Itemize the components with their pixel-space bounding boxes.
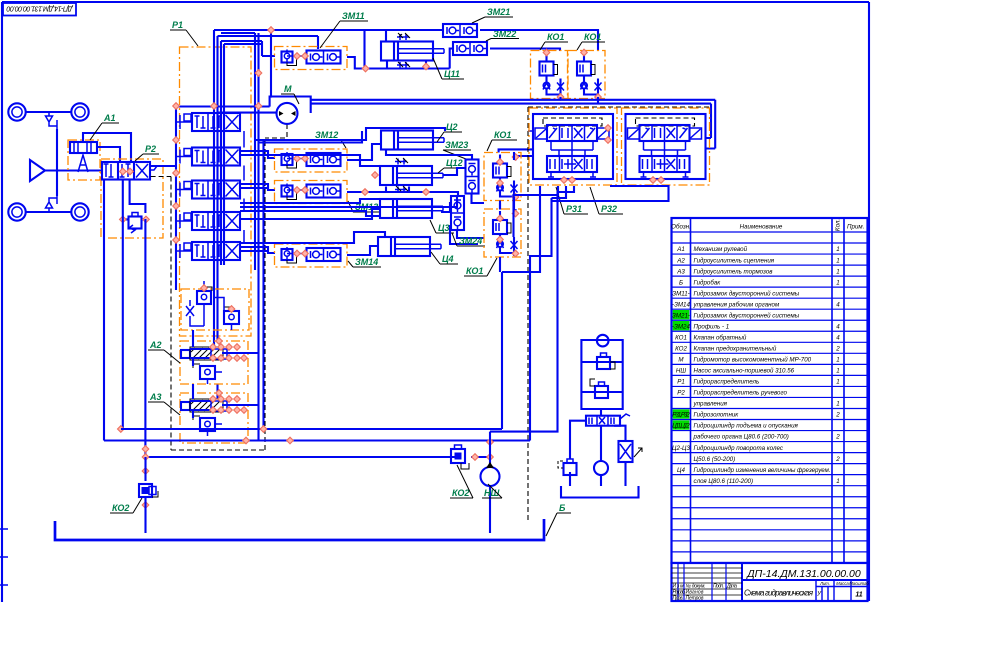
front axle wire bbox=[26, 111, 71, 113]
feed pump circle bbox=[594, 461, 608, 475]
svg-text:Гидроцилиндр поворота колес: Гидроцилиндр поворота колес bbox=[694, 445, 784, 452]
svg-text:2: 2 bbox=[835, 434, 840, 441]
svg-text:А2: А2 bbox=[149, 340, 162, 350]
bottom long wire 1 bbox=[121, 428, 502, 430]
svg-text:А3: А3 bbox=[676, 268, 685, 275]
section interconnect stubs bbox=[243, 131, 245, 242]
svg-text:КО1: КО1 bbox=[494, 130, 511, 140]
sheet frame bbox=[2, 2, 869, 602]
P1 manifold line 3b bbox=[224, 44, 262, 265]
svg-text:Р31,Р32: Р31,Р32 bbox=[672, 412, 690, 419]
svg-text:Ц4: Ц4 bbox=[677, 467, 685, 474]
svg-text:11: 11 bbox=[855, 592, 862, 599]
wire P1 to ZM14 bbox=[240, 247, 275, 253]
svg-text:4: 4 bbox=[836, 323, 840, 330]
hydrolock ZM22 bbox=[453, 42, 487, 55]
check valve KO1 unit 3 bbox=[484, 153, 521, 201]
A3 valve bbox=[200, 418, 215, 431]
svg-text:Клапан предохранительный: Клапан предохранительный bbox=[694, 346, 777, 353]
pump unit directional valve bbox=[586, 416, 620, 426]
title block lit/mass/scale cells bbox=[816, 580, 868, 601]
title block designation cell bbox=[742, 563, 868, 601]
safety valve KO2 left bbox=[139, 484, 158, 497]
drain wire A1 down bbox=[103, 180, 105, 441]
svg-text:Наименование: Наименование bbox=[740, 224, 783, 231]
svg-text:М: М bbox=[284, 84, 292, 94]
svg-text:Ц4: Ц4 bbox=[442, 254, 454, 264]
svg-text:Ц11: Ц11 bbox=[444, 69, 460, 79]
svg-text:А3: А3 bbox=[149, 392, 162, 402]
cylinder C11 bbox=[381, 42, 444, 61]
aux valve branch bbox=[570, 421, 586, 486]
cylinder C4 bbox=[378, 237, 441, 256]
wire P1 to ZM24 bbox=[240, 196, 457, 207]
wire KO1-3 pilots to R31 bbox=[499, 149, 534, 160]
svg-text:М: М bbox=[678, 357, 684, 364]
P1 section 1 bbox=[180, 113, 240, 131]
svg-text:Гидробак: Гидробак bbox=[694, 279, 722, 286]
svg-text:Пров.: Пров. bbox=[673, 596, 684, 602]
svg-text:А2: А2 bbox=[676, 257, 685, 264]
wire KO1-3 to KO1-4 bbox=[500, 152, 514, 210]
C12 fitting bottom bbox=[395, 187, 407, 193]
svg-text:КО2: КО2 bbox=[112, 503, 129, 513]
P1 section 4 bbox=[180, 212, 240, 230]
P1 return manifold bbox=[257, 33, 259, 441]
top bus wire 2 bbox=[218, 33, 319, 49]
R31 staircase wire 1 bbox=[530, 186, 566, 441]
stub to R31 left bbox=[528, 130, 533, 132]
steering wheel symbol bbox=[30, 160, 57, 181]
svg-text:А1: А1 bbox=[676, 246, 685, 253]
wire P2 to P1 supply bbox=[150, 165, 176, 167]
svg-text:Ц12: Ц12 bbox=[446, 158, 463, 168]
wire P1 to C2 top bbox=[255, 128, 445, 143]
wire C2 to ZM23 top bbox=[386, 150, 472, 161]
valve block R32 bbox=[622, 108, 710, 185]
A3 diamonds cluster bbox=[210, 396, 217, 403]
svg-text:Механизм рулевой: Механизм рулевой bbox=[694, 246, 748, 253]
bottom long wire 3 bbox=[146, 456, 491, 458]
pilot reducing valve 2 bbox=[224, 311, 239, 324]
svg-text:Гидроцилиндр изменения величин: Гидроцилиндр изменения величины фрезеруе… bbox=[694, 467, 831, 474]
svg-text:Гидрозолотник: Гидрозолотник bbox=[694, 412, 740, 419]
P1 pilot box bbox=[181, 289, 249, 330]
title block frame bbox=[672, 563, 868, 601]
svg-text:Р2: Р2 bbox=[677, 390, 685, 397]
svg-text:КО2: КО2 bbox=[675, 346, 687, 353]
hydromotor M housing bbox=[270, 97, 311, 114]
svg-text:1: 1 bbox=[836, 379, 839, 386]
wire ZM13 to C12 bbox=[347, 187, 458, 198]
frame tick marks bbox=[0, 529, 8, 585]
svg-text:Кол.: Кол. bbox=[835, 219, 842, 231]
booster A1 lever bbox=[78, 155, 88, 172]
svg-text:-ЗМ14: -ЗМ14 bbox=[672, 301, 690, 308]
pump unit frame bbox=[581, 340, 622, 409]
motor bus wire 1 bbox=[311, 100, 715, 149]
svg-text:Масштаб: Масштаб bbox=[849, 581, 869, 586]
dashed control frame left bbox=[151, 124, 287, 450]
svg-text:Гидрозамок двусторонней систем: Гидрозамок двусторонней системы bbox=[694, 312, 800, 319]
wire ZM22 left bbox=[450, 49, 453, 69]
C11 top port wire bbox=[385, 30, 387, 42]
pump unit gauge circle bbox=[597, 335, 609, 347]
pump unit tank bbox=[561, 486, 639, 498]
wires under KO1 to P3 blocks bbox=[561, 97, 599, 104]
P1 manifold line 3 bbox=[220, 41, 222, 265]
svg-text:ЗМ11-: ЗМ11- bbox=[672, 290, 689, 297]
pilot reducing valve 1 bbox=[197, 291, 211, 304]
pilot wires bbox=[190, 281, 232, 330]
filter symbol bbox=[619, 441, 633, 462]
svg-text:Гидрораспределитель: Гидрораспределитель bbox=[694, 379, 760, 386]
steering column vertical wire bbox=[56, 129, 58, 196]
svg-text:Масса: Масса bbox=[836, 581, 849, 586]
svg-text:Б: Б bbox=[559, 503, 566, 513]
svg-text:ЗМ21: ЗМ21 bbox=[487, 7, 510, 17]
svg-text:КО1: КО1 bbox=[547, 32, 564, 42]
A3 hatched cylinder bbox=[181, 399, 227, 412]
hydrolock ZM24 vertical bbox=[451, 196, 464, 230]
wire ZM23 bottom bbox=[472, 194, 485, 203]
svg-text:1: 1 bbox=[836, 368, 839, 375]
svg-text:Профиль - 1: Профиль - 1 bbox=[694, 323, 730, 330]
hydrolock ZM13 box bbox=[275, 181, 348, 204]
valve block R31 bbox=[529, 108, 617, 185]
A2 diamonds cluster bbox=[210, 344, 217, 351]
P2 directional valve bbox=[102, 162, 150, 180]
svg-text:1: 1 bbox=[836, 268, 839, 275]
C11 fitting top bbox=[397, 34, 409, 40]
svg-text:Обозн.: Обозн. bbox=[671, 224, 691, 231]
check valve KO1 unit 4 bbox=[484, 209, 521, 257]
P1 manifold line 4 bbox=[254, 33, 256, 270]
wire ZM21 to KO1-2 bbox=[480, 30, 598, 51]
svg-text:1: 1 bbox=[836, 279, 839, 286]
pump suction wire bbox=[600, 426, 602, 461]
P1 section 3 bbox=[180, 181, 240, 199]
svg-text:1: 1 bbox=[836, 478, 839, 485]
table grid lines bbox=[672, 232, 868, 563]
svg-text:4: 4 bbox=[836, 301, 840, 308]
drain line right of P1 bbox=[262, 140, 264, 429]
wire C3 rod to ZM24 bbox=[441, 202, 450, 212]
parts list table frame bbox=[672, 218, 868, 563]
rear axle tap valve bbox=[46, 196, 58, 212]
wire P1 to C12 top bbox=[240, 155, 380, 166]
svg-text:2: 2 bbox=[835, 346, 840, 353]
steering supply wire bbox=[57, 169, 102, 171]
aux relief valve bbox=[564, 459, 577, 475]
wire P1 to ZM13 bbox=[240, 184, 275, 190]
motor bus wire 2 bbox=[311, 104, 711, 138]
svg-text:1: 1 bbox=[836, 357, 839, 364]
svg-text:КО1: КО1 bbox=[675, 335, 687, 342]
document stamp box (rotated designation) bbox=[3, 3, 76, 16]
A3 booster box bbox=[180, 393, 248, 443]
svg-text:Ц50.6 (50-200): Ц50.6 (50-200) bbox=[694, 456, 736, 463]
steering valve P2 box bbox=[101, 159, 163, 238]
hydrolock ZM14 box bbox=[275, 244, 348, 267]
svg-text:Петров: Петров bbox=[686, 596, 704, 602]
svg-text:Р1: Р1 bbox=[172, 20, 183, 30]
dashed line right bbox=[528, 107, 710, 520]
svg-text:Гидрораспределитель ручевого: Гидрораспределитель ручевого bbox=[694, 390, 788, 397]
svg-text:ЗМ11: ЗМ11 bbox=[342, 11, 365, 21]
svg-text:Ц2: Ц2 bbox=[446, 122, 458, 132]
A2/A3 connection wires bbox=[193, 330, 259, 418]
svg-text:Гидроцилиндр подъема и опускан: Гидроцилиндр подъема и опускания bbox=[694, 423, 799, 430]
svg-text:Насос аксиально-поршевой 310.5: Насос аксиально-поршевой 310.56 bbox=[694, 368, 795, 375]
check valve KO1 unit 2 bbox=[568, 51, 605, 99]
A1 wires bbox=[83, 133, 131, 162]
hydrolock ZM11 box bbox=[275, 47, 348, 70]
wire ZM14 to C4 bbox=[347, 246, 378, 255]
main pump NSh bbox=[481, 467, 500, 486]
wire P1 to C4 top bbox=[240, 232, 385, 243]
svg-text:управления: управления bbox=[693, 401, 728, 408]
wheel bottom-left bbox=[8, 203, 25, 220]
svg-text:Р31: Р31 bbox=[566, 204, 582, 214]
hydrolock ZM23 vertical bbox=[466, 160, 479, 194]
P1 manifold line 2 bbox=[216, 36, 218, 399]
svg-text:Гидроусилитель тормозов: Гидроусилитель тормозов bbox=[694, 268, 774, 275]
wire C12 rod to ZM23 bbox=[443, 168, 466, 175]
P1 supply line left bbox=[175, 103, 177, 290]
wire ZM12 to cylinder C2 bbox=[347, 144, 381, 160]
section supply stubs bbox=[176, 122, 180, 251]
hydromotor M supply wires bbox=[176, 107, 277, 113]
wire KO1-4 down bbox=[499, 257, 501, 272]
wire ZM24 bottom to KO1-4 bbox=[450, 225, 484, 244]
safety valve KO2 right bbox=[451, 445, 469, 469]
svg-text:Клапан обратный: Клапан обратный bbox=[694, 335, 747, 342]
P1 section 2 bbox=[180, 148, 240, 166]
svg-text:4: 4 bbox=[836, 335, 840, 342]
A2 hatched cylinder bbox=[181, 347, 227, 360]
filter branch wire bbox=[614, 426, 626, 486]
pump unit valve 1 bbox=[597, 353, 610, 369]
svg-text:2: 2 bbox=[835, 412, 840, 419]
svg-text:НШ: НШ bbox=[676, 368, 686, 375]
svg-text:Р32: Р32 bbox=[601, 204, 617, 214]
hydrolock ZM21 bbox=[443, 24, 477, 37]
cylinder C12 bbox=[380, 166, 443, 185]
svg-text:ЗМ21-: ЗМ21- bbox=[672, 312, 690, 319]
pump unit wires bbox=[600, 409, 602, 416]
svg-text:ЗМ23: ЗМ23 bbox=[445, 140, 468, 150]
wheel top-right bbox=[71, 103, 88, 120]
svg-text:ЗМ24: ЗМ24 bbox=[459, 236, 482, 246]
A2 valve bbox=[200, 366, 215, 379]
P2 relief valve bbox=[129, 213, 142, 229]
svg-text:Ц11,Ц12: Ц11,Ц12 bbox=[672, 423, 690, 430]
P1 section 5 bbox=[180, 242, 240, 260]
svg-text:ЗМ14: ЗМ14 bbox=[355, 257, 378, 267]
svg-text:Р2: Р2 bbox=[145, 144, 156, 154]
svg-text:управления рабочим органом: управления рабочим органом bbox=[693, 301, 780, 308]
C12 fitting top bbox=[395, 159, 407, 165]
svg-text:А1: А1 bbox=[103, 113, 116, 123]
svg-text:КО2: КО2 bbox=[452, 488, 469, 498]
svg-text:Дата: Дата bbox=[726, 584, 737, 590]
distributor P1 box bbox=[180, 47, 252, 336]
pilot X symbol bbox=[186, 306, 194, 316]
svg-text:Прим.: Прим. bbox=[847, 224, 864, 231]
svg-text:Гидроусилитель сцепления: Гидроусилитель сцепления bbox=[694, 257, 775, 264]
svg-text:КО1: КО1 bbox=[466, 266, 483, 276]
P1 manifold line 1 bbox=[213, 30, 215, 347]
hydromotor M bbox=[277, 103, 298, 124]
svg-text:1: 1 bbox=[836, 246, 839, 253]
svg-text:ЗМ12: ЗМ12 bbox=[315, 130, 338, 140]
svg-text:рабочего органа Ц80.6 (200-700: рабочего органа Ц80.6 (200-700) bbox=[693, 434, 789, 441]
hydrotank B bbox=[55, 519, 544, 540]
motor supply vertical bbox=[270, 30, 272, 98]
highlighted designator cells bbox=[673, 310, 690, 319]
top bus wire 3 bbox=[221, 41, 275, 56]
P32 U-bend return wire bbox=[552, 186, 669, 201]
KO2 left vertical wire bbox=[144, 457, 146, 533]
svg-text:Гидрозамок двусторонний систем: Гидрозамок двусторонний системы bbox=[694, 290, 800, 297]
svg-text:Гидромотор высокомоментный МР-: Гидромотор высокомоментный МР-700 bbox=[694, 357, 812, 364]
hydrolock ZM12 box bbox=[275, 149, 348, 172]
booster A1 cylinder bbox=[70, 142, 97, 153]
rear axle wire bbox=[26, 211, 71, 213]
pump unit valve 2 bbox=[595, 382, 608, 398]
wire ZM22 to KO1-1 bbox=[490, 49, 560, 52]
bottom long wire 2 bbox=[104, 439, 530, 441]
hydro-booster A1 box bbox=[68, 140, 100, 180]
R31 staircase wire 2 bbox=[514, 186, 559, 237]
svg-text:Ц3: Ц3 bbox=[438, 223, 450, 233]
R31 staircase wire 4 bbox=[502, 186, 540, 429]
svg-text:Лит.: Лит. bbox=[819, 581, 830, 586]
wire P1 to C3 top bbox=[240, 199, 381, 219]
check valve KO1 unit 1 bbox=[531, 51, 568, 99]
front axle tap valve bbox=[46, 112, 58, 129]
cylinder C3 bbox=[380, 199, 443, 218]
title block left grid bbox=[672, 568, 743, 595]
wheel top-left bbox=[8, 103, 25, 120]
svg-text:слоя Ц80.6 (110-200): слоя Ц80.6 (110-200) bbox=[694, 478, 754, 485]
P2 internal wires bbox=[123, 180, 146, 220]
svg-text:ДП-14.ДМ.131.00.00.00: ДП-14.ДМ.131.00.00.00 bbox=[6, 4, 73, 11]
svg-text:Р1: Р1 bbox=[677, 379, 685, 386]
drain wire P2 down bbox=[122, 180, 124, 430]
svg-text:2: 2 bbox=[835, 456, 840, 463]
svg-text:1: 1 bbox=[836, 401, 839, 408]
R31 staircase wire 3 bbox=[490, 186, 574, 432]
wheel bottom-right bbox=[71, 203, 88, 220]
svg-text:Подп.: Подп. bbox=[713, 584, 724, 590]
svg-text:Б: Б bbox=[679, 279, 683, 286]
svg-text:Схема гидравлическая: Схема гидравлическая bbox=[744, 589, 814, 598]
A2 booster box bbox=[180, 341, 248, 384]
svg-text:КО1: КО1 bbox=[584, 32, 601, 42]
svg-text:-ЗМ24: -ЗМ24 bbox=[672, 323, 690, 330]
svg-text:1: 1 bbox=[836, 257, 839, 264]
svg-text:ДП-14.ДМ.131.00.00.00: ДП-14.ДМ.131.00.00.00 bbox=[746, 568, 861, 580]
top bus wire 1 bbox=[214, 29, 442, 31]
cylinder C2 bbox=[381, 131, 444, 150]
wire ZM11 to cylinder C11 bbox=[347, 30, 450, 69]
C11 fitting bottom bbox=[397, 62, 409, 68]
relief out wire down bbox=[144, 219, 146, 457]
wire P1 to ZM12 bbox=[240, 151, 275, 158]
svg-text:Ц2-Ц3: Ц2-Ц3 bbox=[672, 445, 690, 452]
